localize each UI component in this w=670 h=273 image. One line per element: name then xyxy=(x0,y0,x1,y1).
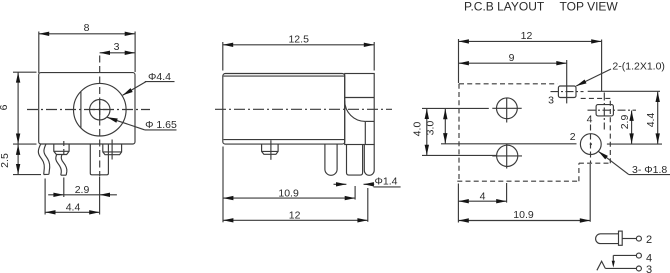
dimension 8 (front width) xyxy=(39,32,135,74)
svg-text:3.0: 3.0 xyxy=(425,121,437,136)
dimension 4.0 (pcb left) xyxy=(422,108,497,155)
dimension 6 (body height) xyxy=(13,72,37,144)
body of jack (front view) xyxy=(39,73,135,144)
svg-text:2.9: 2.9 xyxy=(619,115,631,130)
svg-text:Φ4.4: Φ4.4 xyxy=(148,71,171,83)
pin 2 vertical centerline xyxy=(590,125,592,164)
svg-text:2: 2 xyxy=(570,131,576,143)
wire pin4 xyxy=(613,254,637,256)
pin 2 center dot xyxy=(590,143,592,145)
dimension 12 (pcb top) xyxy=(459,39,602,91)
dimension 2.9 (pcb right) xyxy=(631,111,633,144)
svg-text:4.4: 4.4 xyxy=(645,113,657,128)
svg-text:TOP VIEW: TOP VIEW xyxy=(560,0,619,14)
front plate xyxy=(345,74,375,145)
svg-text:2-(1.2X1.0): 2-(1.2X1.0) xyxy=(612,60,665,72)
svg-text:4: 4 xyxy=(480,191,486,203)
inner bottom line xyxy=(224,139,345,141)
svg-text:4: 4 xyxy=(587,113,593,125)
hole B (bottom left) xyxy=(497,145,518,166)
pad 4 rect xyxy=(596,105,613,116)
svg-text:10.9: 10.9 xyxy=(513,209,534,221)
left U pin xyxy=(325,144,337,175)
leader phi 1.65 xyxy=(107,117,176,130)
wire pin3 xyxy=(605,267,637,269)
svg-text:3: 3 xyxy=(548,95,554,107)
svg-text:4: 4 xyxy=(646,253,652,265)
wire leg 1 (left S-leg) xyxy=(38,144,49,175)
svg-text:3: 3 xyxy=(114,41,120,53)
inner top line xyxy=(224,75,345,77)
hole A crosshair xyxy=(492,98,521,123)
hole A (top left) xyxy=(497,98,518,119)
horizontal centerline front view xyxy=(27,109,150,111)
center pin (front view) xyxy=(90,144,108,175)
plate inner horizontal xyxy=(345,97,375,99)
vertical centerline front view xyxy=(99,56,101,177)
plug tip symbol xyxy=(596,234,619,244)
pad 4 centerlines xyxy=(588,109,637,111)
dimension 12 (side) xyxy=(223,188,368,222)
svg-text:P.C.B LAYOUT: P.C.B LAYOUT xyxy=(464,0,545,14)
dimension 10.9 (pcb bottom) xyxy=(458,164,590,222)
wire leg 2 (second S-leg) xyxy=(56,155,67,176)
dimension 2.9 (leg to pin) xyxy=(48,141,117,215)
outer circle phi4.4 xyxy=(74,83,127,136)
svg-text:2.9: 2.9 xyxy=(75,184,90,196)
dimension 4.4 (leg span) xyxy=(45,179,100,215)
terminal circle 4 xyxy=(636,253,641,258)
plate inner lines at arc xyxy=(365,120,374,122)
svg-text:9: 9 xyxy=(509,52,515,64)
side lug edge line xyxy=(111,140,113,160)
leader 2-(1.2X1.0) xyxy=(576,69,611,86)
terminal circle 3 xyxy=(636,266,641,271)
svg-text:2.5: 2.5 xyxy=(0,153,11,168)
barrel chord line xyxy=(80,92,82,128)
svg-text:3- Φ1.8: 3- Φ1.8 xyxy=(632,164,667,176)
dimension 3 (center to right edge) xyxy=(100,52,136,54)
plug bar xyxy=(619,231,623,245)
dimension phi 1.4 (pin dia) xyxy=(334,184,401,187)
svg-text:10.9: 10.9 xyxy=(278,187,299,199)
pad 3 centerline xyxy=(551,91,584,93)
svg-text:4.0: 4.0 xyxy=(412,122,424,137)
dimension 4 (pcb bottom) xyxy=(458,183,506,223)
leader 3-phi1.8 xyxy=(598,151,670,174)
switch contact spring xyxy=(597,261,605,270)
svg-text:3: 3 xyxy=(646,264,652,273)
side view body xyxy=(223,74,345,145)
dimension 4.4 (pcb right) xyxy=(588,91,662,144)
dimension 3.0 (pcb left) xyxy=(441,109,577,144)
dimension 9 (pcb) xyxy=(459,60,567,103)
terminal cup (side view) xyxy=(262,144,279,154)
terminal cup 2 (behind pin) xyxy=(103,144,122,155)
svg-text:8: 8 xyxy=(84,22,90,34)
dimension 12.5 (side width) xyxy=(223,42,374,71)
component outline (dashed) xyxy=(457,84,610,181)
svg-text:6: 6 xyxy=(0,104,10,110)
pin4 switch arrow xyxy=(612,255,614,263)
wire pin2 xyxy=(622,238,637,240)
leader phi 4.4 xyxy=(123,82,175,96)
terminal cup 1 xyxy=(54,144,69,155)
svg-text:Φ1.4: Φ1.4 xyxy=(375,176,398,188)
hole B crosshair xyxy=(492,144,522,169)
svg-text:4.4: 4.4 xyxy=(66,201,81,213)
svg-text:Φ 1.65: Φ 1.65 xyxy=(145,119,177,131)
center pin phi1.4 (side view) xyxy=(347,144,363,175)
svg-text:2: 2 xyxy=(646,234,652,246)
barrel fillet arc xyxy=(345,101,366,122)
cup centerline xyxy=(270,140,272,160)
terminal circle 2 xyxy=(636,236,641,241)
dimension 10.9 (side) xyxy=(223,147,355,223)
right U pin xyxy=(364,145,374,176)
svg-text:12.5: 12.5 xyxy=(288,34,309,46)
hole pin 2 xyxy=(580,134,601,155)
inner circle phi1.65 xyxy=(90,100,110,120)
pad 3 rect xyxy=(558,86,576,98)
horizontal centerline side view xyxy=(215,108,392,110)
svg-text:12: 12 xyxy=(521,30,533,42)
dimension 2.5 (leg length) xyxy=(13,145,41,175)
svg-text:12: 12 xyxy=(289,210,301,222)
